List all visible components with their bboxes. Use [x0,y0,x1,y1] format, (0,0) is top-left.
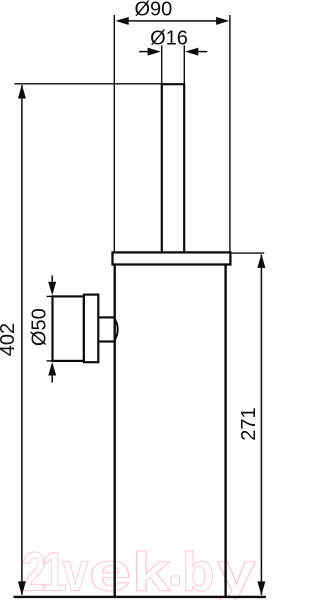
wall-mount flange [53,296,84,361]
arrow 402 bottom [18,581,26,595]
svg-text:v: v [63,541,89,600]
extension line Ø50 bottom [47,360,55,362]
extension line 402 top [14,83,161,85]
watermark 21vek.by [22,541,256,600]
dimension tail Ø50 bottom [51,375,53,383]
arrow 271 bottom [257,581,265,595]
extension line Ø16 left [161,45,163,83]
dimension line 271 [260,255,262,596]
svg-text:k: k [132,541,171,600]
bottom edge / extension line bottom [14,596,266,598]
holder lid [113,252,231,264]
svg-text:271: 271 [238,407,260,440]
dimension tail Ø50 top [51,275,53,283]
extension line Ø90 left [113,15,115,252]
svg-text:y: y [217,542,256,600]
extension line Ø50 top [47,295,55,297]
arrow Ø90 left [116,17,129,25]
mount connector bottom line [98,340,113,342]
dimension line 402 [21,85,23,595]
arrow Ø50 top [48,282,56,296]
brush handle rod [162,84,184,252]
extension line Ø16 right [183,45,185,83]
holder body [115,265,226,597]
arrow 271 top [257,254,265,268]
svg-text:e: e [89,541,132,600]
dimension tail Ø16 right [197,51,208,53]
mount connector top line [98,316,113,318]
wall-mount hub [84,295,98,363]
arrow Ø16 right [185,48,198,56]
arrow Ø50 bottom [48,362,56,376]
arrow 402 top [18,85,26,99]
svg-text:Ø16: Ø16 [150,27,188,49]
mount bulge arc [114,317,118,341]
extension line Ø90 right [229,15,231,252]
arrow Ø90 right [216,17,229,25]
extension line 271 top [231,252,265,254]
svg-text:Ø50: Ø50 [29,308,51,346]
dimension line Ø90 [127,20,218,22]
arrow Ø16 left [148,48,161,56]
dimension tail Ø16 left [139,51,149,53]
svg-text:b: b [182,542,214,600]
svg-text:Ø90: Ø90 [134,0,172,21]
svg-text:402: 402 [0,323,19,356]
